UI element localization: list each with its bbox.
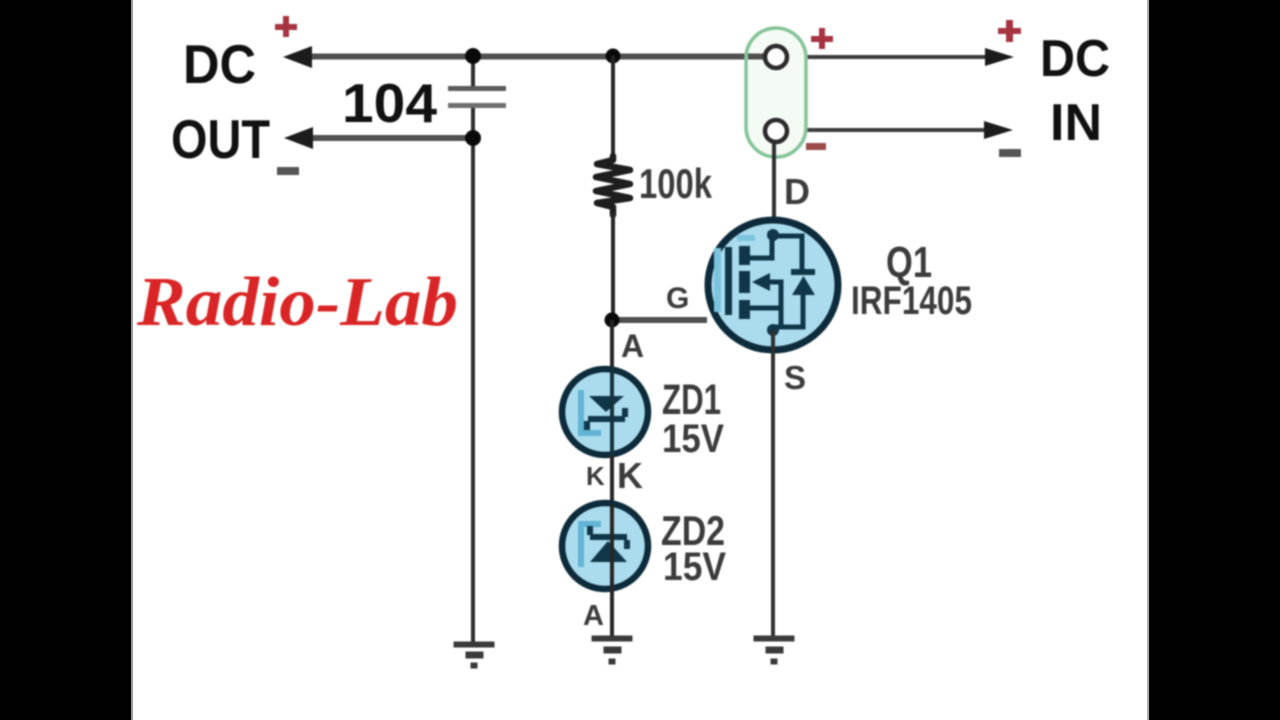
capacitor C1 vertical leads bbox=[471, 56, 475, 138]
label DC (left) bbox=[183, 33, 256, 95]
node: junction dot gate node A bbox=[605, 313, 620, 328]
white content background bbox=[131, 0, 1149, 720]
svg-text:K: K bbox=[617, 455, 643, 496]
transistor Q1 body circle bbox=[708, 220, 838, 350]
svg-text:IN: IN bbox=[1050, 94, 1102, 152]
label ZD2 bbox=[661, 507, 725, 554]
label 15V (ZD1) bbox=[662, 417, 724, 461]
wire: through ZD1 bbox=[610, 368, 614, 458]
label G pin bbox=[666, 282, 689, 315]
node: junction dot resistor branch on top wire bbox=[606, 49, 621, 64]
wire: gate node down to ZD1 anode bbox=[610, 320, 614, 368]
svg-text:DC: DC bbox=[1040, 30, 1110, 88]
label - (DC IN) bbox=[999, 149, 1021, 157]
ground symbol left (capacitor branch) bbox=[454, 642, 494, 668]
wire: DC IN - lower wire bbox=[789, 128, 989, 132]
terminal circle top of connector bbox=[765, 46, 787, 68]
watermark Radio-Lab bbox=[136, 264, 458, 341]
label 104 capacitor value bbox=[342, 72, 437, 134]
zener diode ZD1 body circle bbox=[562, 369, 648, 455]
svg-text:K: K bbox=[586, 461, 605, 491]
label DC (right) bbox=[1040, 30, 1110, 88]
svg-text:Radio-Lab: Radio-Lab bbox=[136, 264, 458, 341]
transistor Q1 internal MOSFET symbol bbox=[725, 229, 815, 336]
label D pin bbox=[784, 171, 810, 212]
wire: resistor branch upper lead bbox=[611, 56, 615, 156]
zener diode ZD1 ghost highlight bbox=[581, 390, 601, 433]
svg-text:G: G bbox=[666, 282, 689, 315]
zener diode ZD1 symbol bbox=[584, 396, 628, 430]
svg-text:OUT: OUT bbox=[171, 108, 270, 170]
ground symbol right (source branch) bbox=[754, 636, 794, 664]
wire: drain wire from connector to Q1 bbox=[772, 143, 776, 238]
svg-text:15V: 15V bbox=[663, 545, 726, 589]
svg-text:S: S bbox=[784, 359, 806, 396]
zener diode ZD2 ghost highlight bbox=[581, 524, 601, 567]
label Q1 bbox=[886, 238, 932, 287]
resistor R1 100k zigzag body bbox=[596, 156, 630, 215]
wire: top wire from connector to DC IN arrow bbox=[789, 55, 989, 59]
svg-text:IRF1405: IRF1405 bbox=[851, 279, 972, 323]
svg-text:DC: DC bbox=[183, 33, 256, 95]
svg-text:A: A bbox=[583, 600, 604, 632]
label + (DC IN) bbox=[998, 20, 1021, 42]
wire: gate wire from node to Q1 gate bbox=[612, 317, 707, 323]
label K right bbox=[617, 455, 643, 496]
wire: source wire from Q1 down to ground bbox=[771, 330, 775, 637]
ground symbol middle (zener branch) bbox=[592, 636, 632, 664]
node: junction dot bottom of capacitor bbox=[465, 130, 481, 146]
wire: DC OUT + horizontal top wire bbox=[300, 54, 768, 60]
label A bottom bbox=[583, 600, 604, 632]
label IRF1405 bbox=[851, 279, 972, 323]
svg-text:D: D bbox=[784, 171, 810, 212]
wire: resistor lower lead down to gate node bbox=[611, 213, 615, 320]
wire: through ZD2 down to ground bbox=[610, 505, 614, 637]
label 15V (ZD2) bbox=[663, 545, 726, 589]
label 100k resistor value bbox=[639, 160, 712, 207]
wire: DC OUT - lower wire bbox=[300, 135, 475, 141]
svg-text:100k: 100k bbox=[639, 160, 712, 207]
capacitor C1 plates bbox=[448, 86, 506, 108]
zener diode ZD2 symbol bbox=[587, 526, 630, 562]
node: junction dot top of capacitor bbox=[465, 48, 481, 64]
wire: capacitor bottom lead down to ground bbox=[471, 138, 475, 643]
wire: between ZD1 and ZD2 bbox=[610, 455, 614, 505]
label + (DC OUT) bbox=[275, 16, 297, 37]
svg-text:A: A bbox=[621, 328, 644, 364]
label A gate node bbox=[621, 328, 644, 364]
terminal arrow DC OUT - bbox=[284, 127, 313, 149]
svg-text:15V: 15V bbox=[662, 417, 724, 461]
terminal arrow DC OUT + bbox=[283, 46, 312, 68]
label K left bbox=[586, 461, 605, 491]
label S pin bbox=[784, 359, 806, 396]
label ZD1 bbox=[662, 376, 721, 424]
label - (connector) bbox=[806, 143, 826, 150]
terminal arrow DC IN + bbox=[985, 48, 1014, 66]
transistor Q1 ghost highlight marks bbox=[714, 238, 755, 312]
label - (DC OUT) bbox=[277, 167, 299, 175]
svg-text:104: 104 bbox=[342, 72, 437, 134]
terminal arrow DC IN - bbox=[984, 121, 1013, 139]
label IN (right) bbox=[1050, 94, 1102, 152]
zener diode ZD2 body circle bbox=[562, 503, 648, 589]
terminal circle bottom of connector bbox=[765, 120, 787, 142]
label + (connector) bbox=[811, 28, 833, 49]
connector J1 green pill body bbox=[746, 28, 806, 157]
label OUT (left) bbox=[171, 108, 270, 170]
wire: segment through connector top bbox=[748, 54, 766, 60]
